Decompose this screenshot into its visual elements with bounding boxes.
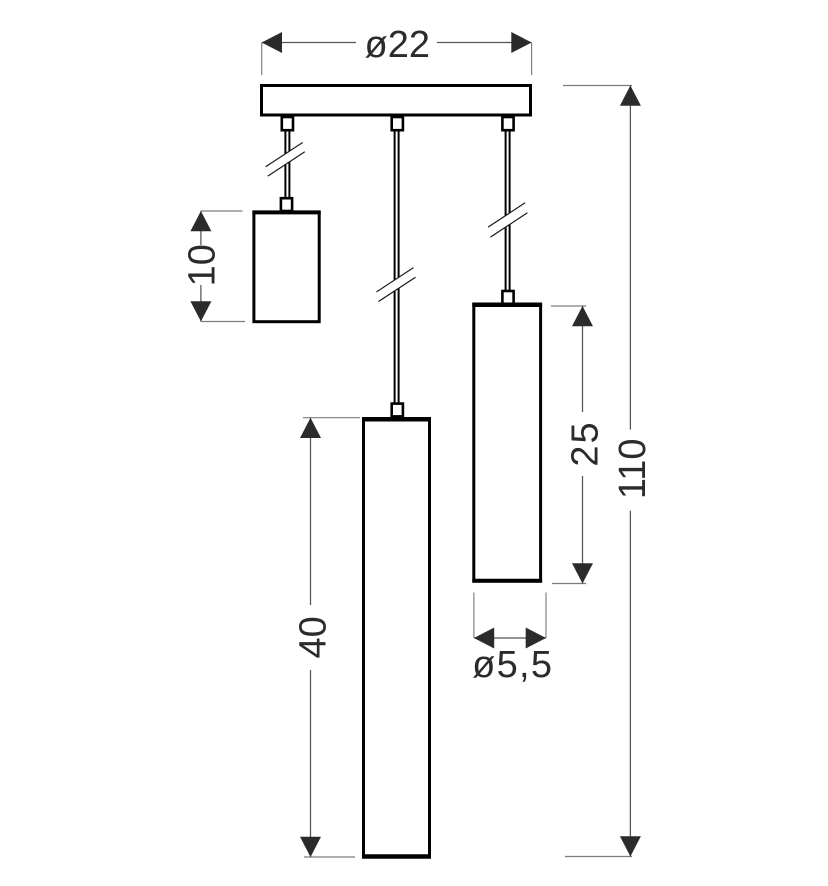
dimension o22 label xyxy=(365,24,430,66)
svg-text:10: 10 xyxy=(182,244,224,286)
svg-text:110: 110 xyxy=(612,439,654,500)
break symbol left cord xyxy=(266,143,305,177)
svg-text:ø5,5: ø5,5 xyxy=(472,644,553,686)
dimension 40 label xyxy=(293,616,335,658)
dimension 10 extension line top xyxy=(201,210,243,212)
dimension 110 arrow up xyxy=(620,86,641,106)
dimension 110 extension line top xyxy=(563,85,632,87)
dimension 110 label xyxy=(612,439,654,500)
dimension 10 arrow up xyxy=(190,211,211,231)
dimension o22 extension line left xyxy=(261,43,263,75)
svg-text:25: 25 xyxy=(564,420,606,466)
dimension 10 extension line bottom xyxy=(201,321,245,323)
dimension o22 line xyxy=(262,42,532,44)
dimension o5,5 arrow left xyxy=(474,628,494,649)
dimension 40 extension line top xyxy=(303,417,360,419)
cord right xyxy=(506,131,510,290)
cord center xyxy=(395,131,399,403)
dimension 40 line xyxy=(310,418,312,857)
ceiling canopy bar xyxy=(262,86,531,116)
canopy hanger socket right xyxy=(502,117,513,130)
dimension 25 extension line bottom xyxy=(552,583,586,585)
dimension o22 arrow left xyxy=(262,32,282,53)
lamp holder socket left pendant xyxy=(281,198,292,211)
dimension 25 line xyxy=(582,306,584,584)
dimension 25 extension line top xyxy=(551,305,586,307)
shade cylinder right (25 cm) xyxy=(472,304,542,581)
cord left xyxy=(285,131,289,197)
svg-text:40: 40 xyxy=(293,616,335,658)
dimension o5,5 arrow right xyxy=(526,628,546,649)
dimension o22 extension line right xyxy=(531,43,533,75)
dimension 40 arrow down xyxy=(300,837,321,857)
dimension o5,5 extension line left xyxy=(473,593,475,639)
dimension o5,5 line xyxy=(474,637,546,639)
dimension 40 arrow up xyxy=(300,418,321,438)
break symbol center cord xyxy=(377,268,416,302)
shade cylinder left (10 cm) xyxy=(252,212,320,321)
dimension 25 arrow down xyxy=(572,563,593,583)
canopy hanger socket center xyxy=(392,117,403,130)
svg-text:ø22: ø22 xyxy=(365,24,430,66)
shade cylinder center (40 cm) xyxy=(362,419,431,857)
dimension 110 extension line bottom xyxy=(565,856,632,858)
dimension o22 arrow right xyxy=(511,32,531,53)
break symbol right cord xyxy=(488,203,527,237)
dimension 10 arrow down xyxy=(190,301,211,321)
dimension 25 label xyxy=(564,420,606,466)
canopy hanger socket left xyxy=(282,117,293,130)
dimension 10 line xyxy=(200,211,202,322)
dimension 110 arrow down xyxy=(620,836,641,856)
dimension 40 extension line bottom xyxy=(304,856,355,858)
dimension 10 label xyxy=(182,244,224,286)
lamp holder socket center pendant xyxy=(392,404,403,417)
dimension o5,5 extension line right xyxy=(545,593,547,639)
lamp holder socket right pendant xyxy=(502,291,513,304)
dimension 25 arrow up xyxy=(572,306,593,326)
dimension 110 line xyxy=(629,86,631,857)
dimension o5,5 label xyxy=(472,644,553,686)
